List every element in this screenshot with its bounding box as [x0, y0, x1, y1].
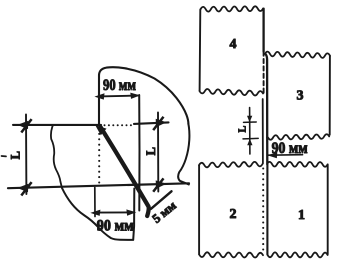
strip 4 top wavy edge	[201, 6, 264, 11]
90mm bottom dimension line	[95, 211, 133, 213]
strip 2 bottom wavy edge	[199, 252, 263, 257]
90mm bottom left extension line	[94, 188, 96, 217]
90mm top right extension line	[138, 95, 140, 211]
strip 3 right edge	[329, 56, 331, 135]
diagonal cut line	[101, 127, 149, 216]
5mm leader line	[151, 191, 172, 209]
mini dim bottom arrow	[247, 139, 252, 146]
cut dotted vertical line	[98, 127, 100, 183]
svg-text:90 мм: 90 мм	[103, 77, 136, 94]
strip 1 right edge	[327, 164, 329, 254]
mini dim bottom tick	[243, 137, 258, 140]
left bottom crossing arrow	[17, 181, 32, 196]
patch outline: bottom lobe	[62, 188, 134, 240]
L dimension line right	[157, 113, 159, 192]
svg-text:5 мм: 5 мм	[150, 198, 180, 226]
90mm bottom left arrow	[90, 210, 100, 216]
patch outline: right edge	[178, 124, 189, 185]
svg-text:1: 1	[298, 208, 305, 223]
stray mark left edge	[2, 155, 7, 157]
svg-text:L: L	[144, 147, 158, 155]
svg-text:90 мм: 90 мм	[97, 218, 134, 235]
svg-text:4: 4	[230, 37, 237, 52]
diagonal top arrowhead	[95, 125, 106, 135]
right top crossing arrow	[152, 116, 166, 131]
left top crossing arrow	[17, 118, 32, 133]
strip 1 top wavy edge	[267, 162, 328, 167]
strip 3 bottom wavy edge	[268, 134, 329, 139]
mini dim top arrow	[247, 116, 252, 123]
strip 3 left edge (seam)	[265, 54, 267, 138]
90mm top right arrow	[130, 93, 140, 99]
svg-text:L: L	[8, 151, 22, 159]
svg-text:L: L	[238, 125, 249, 132]
bottom cut line	[8, 183, 189, 188]
top cut line (solid right part)	[134, 122, 169, 124]
patch outline: left edge	[51, 126, 62, 189]
strip 3 top wavy edge	[265, 52, 330, 58]
svg-text:2: 2	[230, 207, 237, 222]
mini L dimension line	[249, 108, 251, 155]
strip 4 bottom wavy edge	[200, 89, 264, 96]
strip 2 right edge hidden under strip 1 (dotted)	[262, 167, 264, 250]
90mm seam dimension line	[268, 154, 303, 157]
strip 4 right edge hidden under strip 3 (dashed)	[263, 52, 265, 96]
seam continuation below strip 3	[266, 138, 268, 164]
svg-text:3: 3	[297, 89, 304, 104]
90mm bottom right arrow	[126, 209, 136, 215]
top cut line (solid left part)	[13, 124, 101, 126]
90mm seam dimension arrow	[267, 152, 277, 158]
strip 2 left edge	[198, 165, 200, 254]
strip 1 bottom wavy edge	[268, 252, 328, 257]
patch outline: top bump of wallpaper piece	[99, 67, 188, 124]
strip 4 right edge (seam, solid upper)	[262, 9, 264, 52]
strip 2 top wavy edge	[199, 162, 263, 167]
top cut line dotted middle segment	[104, 124, 132, 126]
90mm top dimension line	[99, 95, 138, 98]
90mm top left arrow	[94, 93, 104, 99]
seam second line	[262, 99, 264, 164]
strip 1 left edge (seam)	[266, 164, 268, 254]
strip 4 left edge	[199, 10, 202, 91]
right bottom crossing arrow	[152, 178, 166, 193]
svg-text:90 мм: 90 мм	[272, 140, 308, 157]
L dimension line left	[25, 115, 27, 195]
mini dim top tick	[244, 121, 257, 123]
